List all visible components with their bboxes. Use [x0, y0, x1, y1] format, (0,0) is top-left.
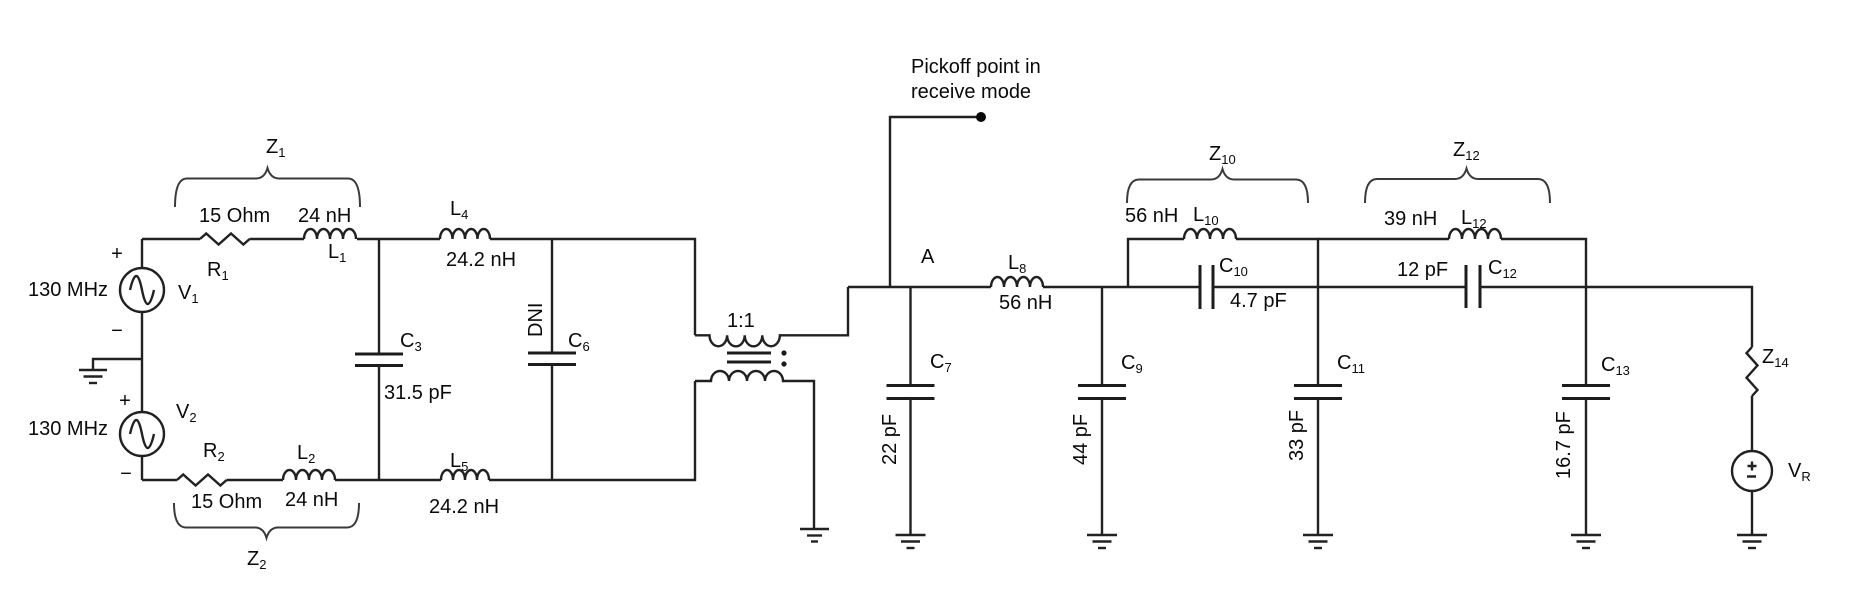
capacitor C12 — [1466, 265, 1480, 308]
source V1 — [120, 268, 164, 312]
svg-text:31.5 pF: 31.5 pF — [384, 382, 452, 404]
svg-text:33 pF: 33 pF — [1286, 410, 1308, 461]
capacitor C6 leg lower — [551, 365, 553, 481]
svg-text:+: + — [119, 390, 131, 412]
inductor L1 — [304, 229, 356, 239]
svg-text:24 nH: 24 nH — [285, 489, 338, 511]
svg-text:12 pF: 12 pF — [1397, 259, 1448, 281]
svg-text:DNI: DNI — [525, 303, 547, 337]
svg-text:4.7 pF: 4.7 pF — [1230, 290, 1287, 312]
capacitor C6 — [528, 353, 576, 365]
svg-text:24 nH: 24 nH — [298, 205, 351, 227]
capacitor C11 leg lower — [1317, 399, 1319, 536]
svg-text:56 nH: 56 nH — [999, 292, 1052, 314]
svg-text:A: A — [921, 246, 935, 268]
inductor L5 — [441, 470, 489, 480]
wire R2 to L2 — [227, 479, 283, 481]
svg-text:15 Ohm: 15 Ohm — [199, 205, 270, 227]
pickoff dot — [976, 112, 986, 122]
capacitor C7 leg upper — [909, 287, 911, 386]
wire bottom rail V2 to R2 — [142, 479, 177, 481]
svg-text:130 MHz: 130 MHz — [28, 279, 108, 301]
brace Z1 — [175, 168, 360, 207]
wire V1 bottom to V2 top — [141, 312, 143, 412]
capacitor C10 — [1200, 265, 1213, 309]
svg-text:24.2 nH: 24.2 nH — [446, 249, 516, 271]
wire L10 to Z10 right leg — [1236, 239, 1318, 287]
svg-text:130 MHz: 130 MHz — [28, 418, 108, 440]
inductor L12 — [1449, 229, 1501, 239]
svg-text:39 nH: 39 nH — [1384, 208, 1437, 230]
ground (left) — [79, 370, 107, 383]
wire V1 top to rail — [141, 239, 143, 268]
wire R1 to L1 — [250, 238, 304, 240]
ground (C7) — [896, 535, 926, 548]
wire top rail left — [142, 238, 200, 240]
source VR — [1732, 451, 1772, 491]
wire Z12 top branch left — [1318, 238, 1449, 240]
capacitor C3 leg upper — [378, 239, 380, 354]
transformer T1 secondary — [695, 371, 814, 529]
capacitor C7 — [887, 386, 935, 399]
wire L8 to C10 — [1043, 286, 1200, 288]
pickoff wire — [890, 117, 981, 287]
resistor Z14 — [1747, 347, 1758, 396]
transformer core — [727, 353, 771, 362]
wire L12 to Z12 right leg — [1501, 239, 1586, 287]
source V2 — [120, 412, 164, 456]
wire L5 to transformer bottom corner — [489, 381, 695, 480]
brace Z10 — [1127, 169, 1308, 203]
ground (C9) — [1087, 535, 1117, 548]
wire L2 to L5 — [335, 479, 441, 481]
svg-text:22 pF: 22 pF — [879, 414, 901, 465]
resistor R2 — [177, 475, 227, 486]
capacitor C7 leg lower — [909, 399, 911, 536]
capacitor C3 — [355, 354, 403, 366]
ground (C11) — [1303, 535, 1333, 548]
resistor R1 — [200, 234, 250, 245]
svg-text:receive mode: receive mode — [911, 81, 1031, 103]
capacitor C9 — [1078, 386, 1126, 399]
svg-text:Pickoff point in: Pickoff point in — [911, 56, 1041, 78]
wire C10 to C12 — [1213, 286, 1466, 288]
svg-text:1:1: 1:1 — [727, 310, 755, 332]
capacitor C13 leg upper — [1585, 287, 1587, 386]
transformer T1 primary — [695, 287, 848, 346]
capacitor C3 leg lower — [378, 366, 380, 481]
wire V2 bottom — [141, 456, 143, 480]
inductor L10 — [1184, 229, 1236, 239]
brace Z12 — [1365, 169, 1550, 204]
wire ground branch — [93, 359, 142, 370]
inductor L2 — [283, 470, 335, 480]
ground (transformer secondary) — [800, 529, 829, 542]
brace Z2 — [174, 503, 359, 538]
wire VR to ground — [1751, 490, 1753, 535]
svg-text:−: − — [120, 463, 132, 485]
svg-text:56 nH: 56 nH — [1125, 205, 1178, 227]
wire main rail left — [848, 286, 991, 288]
capacitor C11 — [1294, 386, 1342, 399]
capacitor C9 leg lower — [1101, 399, 1103, 536]
wire Z10 left leg — [1128, 239, 1184, 287]
capacitor C9 leg upper — [1101, 287, 1103, 386]
capacitor C13 — [1562, 386, 1610, 399]
ground (C13) — [1571, 535, 1601, 548]
capacitor C13 leg lower — [1585, 399, 1587, 536]
capacitor C11 leg upper — [1317, 287, 1319, 386]
svg-text:15 Ohm: 15 Ohm — [191, 491, 262, 513]
ground (VR) — [1737, 535, 1767, 548]
svg-text:44 pF: 44 pF — [1070, 414, 1092, 465]
svg-text:+: + — [111, 243, 123, 265]
inductor L4 — [440, 229, 490, 239]
svg-text:16.7 pF: 16.7 pF — [1553, 411, 1575, 479]
wire Z14 to VR — [1751, 396, 1753, 452]
transformer phasing dots — [781, 350, 786, 366]
wire L4 to C6 node to transformer corner — [490, 239, 695, 335]
wire L1 to C3 node to L4 — [357, 238, 440, 240]
capacitor C6 leg upper — [551, 239, 553, 353]
inductor L8 — [991, 277, 1043, 287]
wire rail to Z14 — [1480, 287, 1752, 347]
svg-text:−: − — [111, 320, 123, 342]
svg-text:24.2 nH: 24.2 nH — [429, 496, 499, 518]
